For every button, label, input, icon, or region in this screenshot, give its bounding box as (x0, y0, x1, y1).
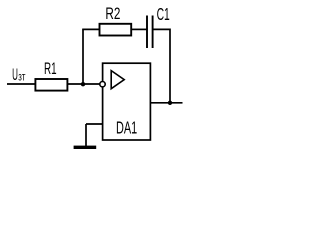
wire feedback branch vertical (82, 29, 84, 84)
svg-text:R2: R2 (105, 4, 120, 23)
op-amp DA1 (103, 63, 151, 140)
capacitor C1 (147, 16, 153, 49)
wire R1 to inverting input (67, 83, 100, 85)
wire down to ground (85, 124, 87, 146)
wire R2 to C1 (131, 28, 147, 30)
svg-text:DA1: DA1 (116, 118, 137, 138)
wire C1 to corner (153, 28, 170, 30)
wire input to R1 (7, 83, 35, 85)
junction node A (81, 82, 85, 86)
svg-text:U: U (12, 66, 18, 84)
wire branch to R2 (82, 28, 99, 30)
junction node output (168, 101, 172, 105)
resistor R1 (35, 79, 67, 91)
inversion bubble on inverting input (100, 82, 105, 87)
amplifier triangle (111, 71, 124, 89)
node Uin label (12, 66, 26, 84)
wire non-inverting input (86, 123, 103, 125)
resistor R2 (100, 24, 132, 36)
wire corner down to output node (169, 29, 171, 104)
svg-text:R1: R1 (44, 59, 57, 78)
svg-text:зт: зт (18, 70, 25, 84)
svg-text:C1: C1 (157, 4, 170, 24)
wire output (151, 102, 183, 104)
ground (74, 146, 97, 149)
